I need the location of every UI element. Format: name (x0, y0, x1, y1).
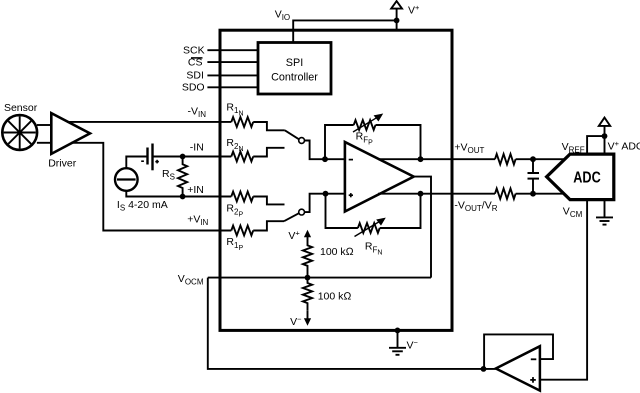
node buffer output (481, 366, 487, 372)
wire sensor to driver bottom (37, 142, 51, 144)
node V+ junction (394, 18, 400, 24)
wire R1P to switch contact (253, 221, 284, 230)
node +out junction (418, 156, 424, 162)
switch bottom pole circle (299, 209, 305, 215)
node VOCM divider (305, 275, 311, 281)
pin SDI (186, 69, 258, 81)
wire VREF loop to V+ (587, 136, 604, 154)
power symbol V+ (391, 1, 420, 20)
wire -VOUT line (378, 193, 495, 195)
power arrow V- divider (290, 310, 311, 328)
ground main box V- (389, 328, 419, 355)
wire R1N to switch contact (253, 122, 285, 130)
resistor RFP variable (353, 114, 383, 147)
wire FDA +in (326, 193, 345, 195)
resistor R2P (226, 192, 253, 219)
wire battery to -IN node (153, 156, 232, 158)
wire R2N open contact (253, 148, 284, 157)
svg-text:SCK: SCK (183, 45, 205, 57)
wire V+ pin (604, 136, 606, 154)
wire +VIN from driver to R1P (71, 143, 231, 231)
resistor output bottom (495, 189, 516, 199)
wire V+ junction down to box (396, 20, 398, 30)
node RC top (530, 156, 536, 162)
wire buffer feedback loop (484, 334, 553, 369)
wire VIO to SPI and V+ rail (293, 20, 396, 42)
ground ADC (596, 200, 613, 225)
resistor 100k upper (303, 244, 354, 278)
node FDA +in (323, 191, 329, 197)
ADC block (547, 154, 614, 200)
resistor R1P (226, 226, 253, 253)
sensor SENSOR (2, 102, 37, 150)
wire VOCM down and to buffer output (208, 278, 496, 369)
svg-text:V+ ADC: V+ ADC (608, 139, 640, 152)
node FDA -in (322, 156, 328, 162)
svg-text:SDI: SDI (186, 69, 204, 81)
wire VOCM horizontal (208, 277, 431, 279)
svg-text:100 kΩ: 100 kΩ (320, 246, 354, 258)
resistor output top (495, 154, 516, 164)
resistor R1N (226, 101, 253, 127)
driver amplifier (48, 113, 90, 169)
svg-text:Driver: Driver (48, 158, 77, 170)
op-amp FDA (345, 142, 414, 212)
node +IN (180, 194, 186, 200)
resistor R2N (226, 137, 253, 161)
wire R2P open contact (253, 197, 284, 205)
resistor RFN variable (355, 218, 386, 257)
svg-text:Sensor: Sensor (4, 102, 38, 114)
power arrow V+ divider (288, 228, 311, 244)
wire current source top to battery (126, 157, 147, 169)
switch top pole circle (299, 138, 305, 144)
svg-text:SPI: SPI (286, 57, 303, 69)
node V+ ADC (602, 133, 608, 139)
node RC bottom (530, 191, 536, 197)
wire +VOUT line (378, 158, 495, 160)
wire -VIN from driver to R1N (67, 121, 231, 123)
wire current source bottom to +IN (126, 191, 231, 197)
svg-text:Controller: Controller (271, 72, 318, 84)
resistor RS (162, 158, 187, 195)
svg-text:100 kΩ: 100 kΩ (318, 291, 352, 303)
wire VCM to buffer (540, 200, 587, 380)
switch top blade (285, 130, 299, 139)
wire RFP feedback loop (325, 125, 354, 159)
resistor 100k lower (303, 278, 352, 311)
switch bottom blade (284, 213, 299, 221)
main device box (220, 30, 452, 330)
capacitor C (528, 159, 540, 194)
wire FDA -in (325, 158, 345, 160)
wire switch bottom pole to amp (305, 194, 326, 212)
power symbol V+ ADC (599, 118, 610, 137)
node -IN (180, 154, 186, 160)
wire RFN feedback loop (326, 194, 358, 228)
svg-text:SDO: SDO (182, 82, 205, 94)
op-amp buffer (496, 346, 540, 390)
battery (141, 144, 159, 171)
pin SCK (183, 45, 258, 57)
node -out junction (418, 191, 424, 197)
wire switch top pole to amp (305, 141, 326, 160)
wire VOCM to FDA apex (414, 177, 431, 278)
svg-text:IS 4-20 mA: IS 4-20 mA (117, 199, 168, 213)
current source IS (115, 168, 168, 212)
SPI controller (258, 43, 331, 95)
wire sensor to driver top (37, 124, 51, 126)
svg-text:+IN: +IN (187, 184, 204, 196)
svg-text:ADC: ADC (573, 170, 601, 187)
pin SDO (182, 82, 258, 94)
svg-text:-IN: -IN (190, 142, 204, 154)
pin CS (188, 56, 258, 68)
